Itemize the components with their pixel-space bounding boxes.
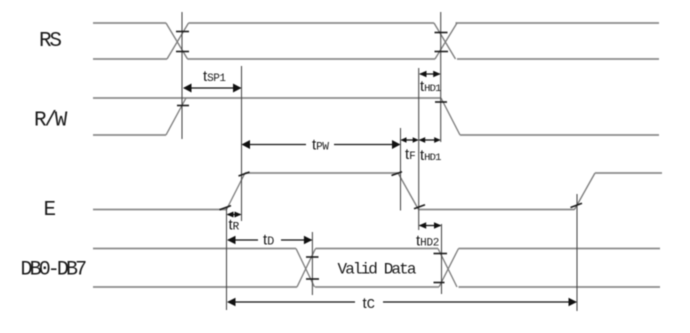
wire R/W low rail right xyxy=(460,134,659,136)
node RS crossover X2 xyxy=(434,23,457,59)
tick R/W fall xyxy=(435,101,447,103)
dimension arrow tR xyxy=(227,212,242,218)
dimension arrow tPW xyxy=(242,140,401,149)
tick DB X1 upper xyxy=(306,256,319,258)
wire R/W high rail xyxy=(93,97,441,99)
guide line x=241.5 (E rise top) xyxy=(241,66,243,221)
guide line x=182 (RS/RW setup) xyxy=(181,12,183,139)
tick E rise bottom xyxy=(220,206,232,210)
dimension arrow tF xyxy=(401,137,419,143)
tick RS X1 upper xyxy=(176,31,189,33)
wire R/W low rail left xyxy=(93,134,166,136)
dimension arrow tSP1 xyxy=(183,84,242,93)
wire E falling edge xyxy=(398,173,419,210)
wire E rising edge 2 xyxy=(575,173,596,210)
tick E fall top xyxy=(392,172,403,176)
tick RS X2 upper xyxy=(435,32,448,34)
node RS crossover X1 xyxy=(166,23,189,59)
guide line x=440.7 upper (RS/RW hold) xyxy=(440,12,442,142)
guide line x=226.5 (E rise bottom) xyxy=(226,207,228,310)
node DB crossover X1 xyxy=(296,249,316,288)
wire E rising edge 1 xyxy=(227,173,246,210)
tick R/W rise xyxy=(177,105,189,107)
wire E low rail middle xyxy=(419,209,575,211)
guide line x=400.5 (E fall start) xyxy=(400,128,402,211)
guide line x=312.4 (data valid start) xyxy=(311,232,313,295)
wire E low rail left xyxy=(93,209,227,211)
wire E high rail xyxy=(245,172,398,174)
wire DB0-DB7 high rail xyxy=(93,248,660,250)
tick RS X2 lower xyxy=(435,51,449,53)
svg-text:RS: RS xyxy=(39,30,61,53)
dimension arrow tHD1 right xyxy=(419,137,441,143)
svg-text:Valid Data: Valid Data xyxy=(338,261,417,279)
guide line x=441.5 lower (data hold) xyxy=(441,224,443,294)
wire R/W falling edge xyxy=(441,98,460,135)
svg-text:DB0-DB7: DB0-DB7 xyxy=(21,259,87,282)
wire DB0-DB7 low rail xyxy=(93,286,660,288)
svg-text:tC: tC xyxy=(363,295,376,313)
node DB crossover X2 xyxy=(438,249,459,288)
svg-text:R/W: R/W xyxy=(34,110,68,133)
svg-text:tD: tD xyxy=(263,232,274,249)
wire E high rail right xyxy=(595,172,662,174)
tick DB X2 lower xyxy=(434,282,445,284)
tick E fall bottom xyxy=(414,205,425,209)
wire RS low rail xyxy=(93,58,659,60)
tick DB X1 lower xyxy=(306,278,319,280)
tick E rise2 bottom xyxy=(571,203,583,207)
wire R/W rising edge xyxy=(166,98,186,135)
dimension arrow tHD1 top xyxy=(419,71,441,77)
tick RS X1 lower xyxy=(176,51,189,53)
guide line x=418.7 (E fall end) xyxy=(418,68,420,230)
guide line x=577 (cycle end) xyxy=(576,194,578,311)
tick E rise top xyxy=(239,172,250,176)
dimension arrow tC xyxy=(227,298,577,306)
dimension arrow tHD2 xyxy=(419,222,442,228)
wire RS high rail xyxy=(93,22,659,24)
tick DB X2 upper xyxy=(434,253,448,255)
svg-text:E: E xyxy=(44,199,56,222)
dimension arrow tD xyxy=(227,236,312,244)
